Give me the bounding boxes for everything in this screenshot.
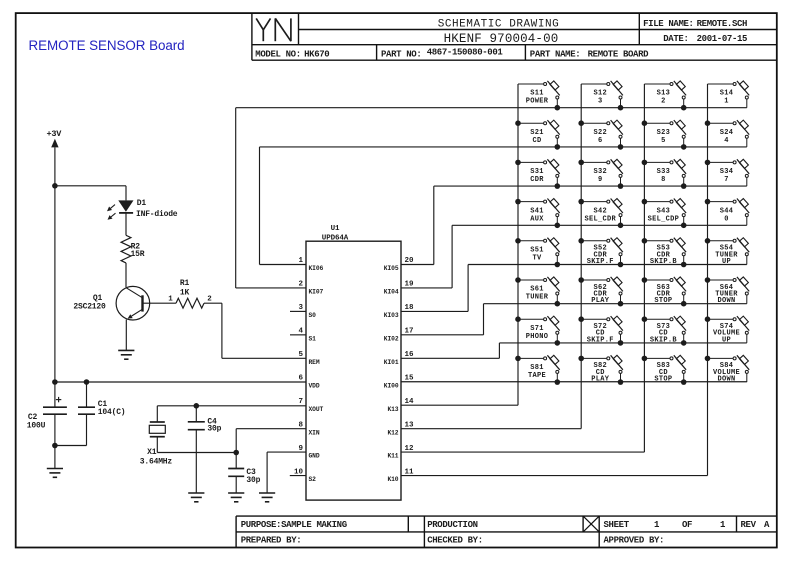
wire R1 to REM pin5 <box>204 303 306 358</box>
wire row4 bus KI04 <box>452 224 747 226</box>
switch S53 CDR SKIP.B <box>644 238 686 266</box>
svg-text:SCHEMATIC DRAWING: SCHEMATIC DRAWING <box>438 18 560 30</box>
svg-text:S24: S24 <box>720 129 734 137</box>
svg-text:S32: S32 <box>593 168 607 176</box>
svg-text:XOUT: XOUT <box>309 406 324 413</box>
node junctions row 7 <box>555 340 687 346</box>
x-box marker <box>583 516 599 532</box>
svg-text:K12: K12 <box>387 429 398 436</box>
pin 4 S1 label <box>298 328 316 343</box>
node junction C1 <box>84 379 90 385</box>
switch S24 4 <box>708 120 750 147</box>
svg-text:KI04: KI04 <box>384 289 399 296</box>
node junctions row 8 <box>555 379 687 385</box>
svg-text:PHONO: PHONO <box>526 333 549 341</box>
svg-text:PLAY: PLAY <box>591 376 610 384</box>
switch S31 CDR <box>518 159 560 186</box>
svg-text:KI01: KI01 <box>384 359 399 366</box>
svg-text:STOP: STOP <box>654 297 672 305</box>
pin 14 K13 label <box>387 398 414 413</box>
field PREPARED BY <box>241 536 302 546</box>
svg-text:15R: 15R <box>131 250 145 259</box>
svg-text:7: 7 <box>298 398 303 406</box>
switch S54 TUNER UP <box>708 238 750 266</box>
wire Q1 base to R1 <box>143 302 177 304</box>
svg-text:1: 1 <box>724 98 729 106</box>
crystal X1 3.64MHz <box>140 422 173 467</box>
svg-text:S81: S81 <box>530 364 544 372</box>
svg-text:4867-150080-001: 4867-150080-001 <box>427 48 504 58</box>
wire row1 bus KI07 <box>236 107 747 109</box>
field MODEL NO <box>255 50 329 60</box>
switch S82 CD PLAY <box>581 355 623 383</box>
svg-text:AUX: AUX <box>530 215 544 223</box>
wire K11 pin12 to column3 <box>401 451 644 453</box>
node junctions row 6 <box>555 301 687 307</box>
svg-text:APPROVED BY:: APPROVED BY: <box>604 536 665 546</box>
wire column 1 bus K13 <box>517 84 519 405</box>
pin 16 KI01 label <box>384 351 414 366</box>
wire row8 bus KI00 pin15 <box>401 381 747 383</box>
svg-text:PRODUCTION: PRODUCTION <box>427 520 478 530</box>
svg-text:X1: X1 <box>147 448 157 457</box>
wire row5 bus KI03 <box>468 264 747 266</box>
switch S64 TUNER DOWN <box>708 277 750 305</box>
svg-text:PART NO:: PART NO: <box>381 50 421 60</box>
pin 5 REM label <box>298 351 319 366</box>
svg-text:S51: S51 <box>530 247 544 255</box>
svg-text:8: 8 <box>298 421 303 429</box>
field DATE <box>663 34 747 44</box>
pin 6 VDD label <box>298 374 319 389</box>
svg-text:30p: 30p <box>246 476 260 485</box>
svg-text:2001-07-15: 2001-07-15 <box>697 34 748 44</box>
pin 1 label R1 <box>168 296 173 304</box>
svg-text:REM: REM <box>309 359 320 366</box>
svg-text:GND: GND <box>309 453 320 460</box>
label UPD64A <box>322 234 349 242</box>
pin 15 KI00 label <box>384 374 414 389</box>
switch S51 TV <box>518 238 560 265</box>
pin 12 K11 label <box>387 445 414 460</box>
wire row6 bus KI02 <box>484 303 747 305</box>
field FILE NAME <box>643 19 747 29</box>
switch S23 5 <box>644 120 686 147</box>
capacitor C3 30p <box>228 453 260 494</box>
switch S62 CDR PLAY <box>581 277 623 305</box>
svg-text:3: 3 <box>598 98 603 106</box>
svg-text:CDR: CDR <box>530 176 544 184</box>
svg-text:UP: UP <box>722 258 731 266</box>
svg-text:KI06: KI06 <box>309 265 324 272</box>
power +3V arrow <box>51 139 58 382</box>
node junctions row 2 <box>555 144 687 150</box>
wire KI03 pin18 to row5 <box>401 265 468 312</box>
field REV A <box>741 520 771 530</box>
ground under C4 <box>188 493 204 502</box>
svg-text:TAPE: TAPE <box>528 372 546 380</box>
svg-text:S43: S43 <box>657 207 671 215</box>
svg-text:S22: S22 <box>593 129 607 137</box>
svg-text:S31: S31 <box>530 168 544 176</box>
svg-text:MODEL NO:: MODEL NO: <box>255 50 300 60</box>
svg-text:S1: S1 <box>309 335 317 342</box>
svg-text:UP: UP <box>722 336 731 344</box>
svg-text:POWER: POWER <box>526 98 549 106</box>
svg-text:SKIP.B: SKIP.B <box>650 336 678 344</box>
svg-text:KI02: KI02 <box>384 335 399 342</box>
wire KI02 pin17 to row6 <box>401 304 484 335</box>
svg-text:KI05: KI05 <box>384 265 399 272</box>
node junction rail-LED <box>52 183 58 189</box>
switch S83 CD STOP <box>644 355 686 383</box>
capacitor C4 30p <box>188 406 222 493</box>
pin 2 KI07 label <box>298 281 323 296</box>
svg-text:5: 5 <box>661 137 666 145</box>
switch S84 VOLUME DOWN <box>708 355 750 383</box>
heading REMOTE SENSOR Board <box>29 38 185 53</box>
wire row7 bus KI01 <box>499 342 746 344</box>
field PURPOSE <box>241 520 347 530</box>
pin 9 GND label <box>298 445 319 460</box>
svg-text:HK670: HK670 <box>304 50 329 60</box>
node junctions column 4 <box>705 120 711 361</box>
switch S44 0 <box>708 199 750 226</box>
svg-text:9: 9 <box>298 445 303 453</box>
pin 4 S1 stub <box>290 334 306 336</box>
bottom block grid <box>236 516 777 547</box>
svg-text:UPD64A: UPD64A <box>322 234 349 242</box>
switch S13 2 <box>644 81 686 108</box>
pin 19 KI04 label <box>384 281 414 296</box>
svg-text:TV: TV <box>532 255 542 263</box>
svg-text:1: 1 <box>654 520 660 530</box>
svg-text:7: 7 <box>724 176 729 184</box>
svg-text:DOWN: DOWN <box>717 376 735 384</box>
svg-text:2SC2120: 2SC2120 <box>73 302 106 311</box>
svg-text:KI07: KI07 <box>309 289 324 296</box>
svg-text:HKENF 970004-00: HKENF 970004-00 <box>444 32 559 46</box>
svg-text:30p: 30p <box>207 425 221 434</box>
field CHECKED BY <box>427 536 483 546</box>
svg-text:KI03: KI03 <box>384 312 399 319</box>
node junctions column 3 <box>642 120 648 361</box>
pin 3 S0 label <box>298 304 316 319</box>
svg-text:SEL_CDP: SEL_CDP <box>648 215 680 223</box>
wire KI05 pin20 to row3 <box>401 186 434 264</box>
node junctions column 1 <box>515 120 521 361</box>
field PRODUCTION <box>427 520 478 530</box>
logo YN <box>256 18 291 41</box>
title block grid <box>252 13 777 60</box>
node junction C4 <box>194 403 200 409</box>
svg-text:3.64MHz: 3.64MHz <box>140 458 173 467</box>
svg-text:2: 2 <box>207 296 212 304</box>
switch S22 6 <box>581 120 623 147</box>
switch S73 CD SKIP.B <box>644 316 686 344</box>
svg-text:K10: K10 <box>387 476 398 483</box>
svg-text:S34: S34 <box>720 168 734 176</box>
node junction C3 <box>233 450 239 456</box>
switch S41 AUX <box>518 199 560 226</box>
svg-text:S61: S61 <box>530 286 544 294</box>
svg-text:SKIP.F: SKIP.F <box>587 258 614 266</box>
ground under pin9 <box>259 493 275 502</box>
wire VDD net <box>55 381 306 383</box>
svg-text:S71: S71 <box>530 325 544 333</box>
svg-text:1K: 1K <box>180 288 190 297</box>
svg-text:1: 1 <box>720 520 726 530</box>
pin 17 KI02 label <box>384 328 414 343</box>
svg-text:S41: S41 <box>530 207 544 215</box>
wire KI01 pin16 to row7 <box>401 343 499 358</box>
ground under Q1 <box>118 350 134 359</box>
svg-text:S0: S0 <box>309 312 317 319</box>
svg-text:S33: S33 <box>657 168 671 176</box>
switch S21 CD <box>518 120 560 147</box>
node junctions row 3 <box>555 183 687 189</box>
svg-text:9: 9 <box>598 176 603 184</box>
svg-text:REV: REV <box>741 520 757 530</box>
wire X1 to XIN node <box>157 437 236 453</box>
wire K13 pin14 to column1 <box>401 404 518 406</box>
node junction C2 <box>52 379 58 385</box>
svg-text:REMOTE BOARD: REMOTE BOARD <box>588 50 650 60</box>
title SCHEMATIC DRAWING <box>438 18 560 30</box>
pin 1 KI06 label <box>298 257 323 272</box>
switch S43 SEL_CDP <box>644 199 686 226</box>
pin 10 S2 label <box>294 468 316 483</box>
pin 18 KI03 label <box>384 304 414 319</box>
node junction C2-C1 <box>52 443 58 449</box>
pin 7 XOUT label <box>298 398 323 413</box>
svg-text:CD: CD <box>532 137 541 145</box>
capacitor C2 100U <box>27 382 67 446</box>
resistor R2 15R <box>121 235 145 263</box>
svg-text:TUNER: TUNER <box>526 294 549 302</box>
title HKENF 970004-00 <box>444 32 559 46</box>
wire XOUT net <box>157 406 306 422</box>
svg-text:0: 0 <box>724 215 729 223</box>
capacitor C1 104(C) <box>55 382 126 446</box>
svg-text:SKIP.F: SKIP.F <box>587 336 614 344</box>
pin 20 KI05 label <box>384 257 414 272</box>
wire column 2 bus K12 <box>580 84 582 429</box>
svg-text:STOP: STOP <box>654 376 672 384</box>
svg-text:SEL_CDR: SEL_CDR <box>584 215 616 223</box>
svg-text:S12: S12 <box>593 90 607 98</box>
svg-text:S11: S11 <box>530 90 544 98</box>
wire rail to D1 <box>55 186 126 201</box>
switch S81 TAPE <box>518 355 560 382</box>
svg-text:SKIP.B: SKIP.B <box>650 258 678 266</box>
pin 11 K10 label <box>387 468 414 483</box>
switch S32 9 <box>581 159 623 186</box>
svg-text:XIN: XIN <box>309 429 320 436</box>
svg-text:5: 5 <box>298 351 303 359</box>
svg-text:REMOTE SENSOR Board: REMOTE SENSOR Board <box>29 38 185 53</box>
wire R2 to Q1 collector <box>125 263 127 287</box>
transistor Q1 2SC2120 <box>73 286 149 350</box>
wire GND pin9 <box>267 452 306 493</box>
switch S71 PHONO <box>518 316 560 343</box>
switch S33 8 <box>644 159 686 186</box>
switch S34 7 <box>708 159 750 186</box>
field APPROVED BY <box>604 536 665 546</box>
wire row2 bus KI06 <box>260 146 747 148</box>
svg-text:4: 4 <box>724 137 729 145</box>
svg-text:OF: OF <box>682 520 692 530</box>
wire KI06 pin1 to row2 <box>260 147 307 265</box>
svg-text:8: 8 <box>661 176 666 184</box>
switch S52 CDR SKIP.F <box>581 238 623 266</box>
svg-text:6: 6 <box>298 374 303 382</box>
svg-text:6: 6 <box>598 137 603 145</box>
node junctions row 5 <box>555 262 687 268</box>
pin 2 label R1 <box>207 296 212 304</box>
wire XIN net <box>236 429 306 453</box>
svg-text:R1: R1 <box>180 279 190 288</box>
svg-text:PART NAME:: PART NAME: <box>530 50 581 60</box>
svg-text:S21: S21 <box>530 129 544 137</box>
svg-text:S14: S14 <box>720 90 734 98</box>
svg-text:DOWN: DOWN <box>717 297 735 305</box>
ground under C2 <box>47 469 63 478</box>
switch S42 SEL_CDR <box>581 199 623 226</box>
switch S14 1 <box>708 81 750 108</box>
svg-text:PURPOSE:SAMPLE MAKING: PURPOSE:SAMPLE MAKING <box>241 520 347 530</box>
svg-text:VDD: VDD <box>309 382 320 389</box>
pin 10 S2 stub <box>290 475 306 477</box>
resistor R1 1K <box>176 279 204 308</box>
switch S12 3 <box>581 81 623 108</box>
svg-text:FILE NAME:: FILE NAME: <box>643 19 694 29</box>
svg-text:100U: 100U <box>27 422 46 431</box>
op-amp U1 UPD64A box <box>306 241 401 500</box>
pin 3 S0 stub <box>290 310 306 312</box>
wire C2 to ground <box>54 446 56 469</box>
svg-text:K13: K13 <box>387 406 398 413</box>
svg-text:INF-diode: INF-diode <box>136 210 178 219</box>
switch S74 VOLUME UP <box>708 316 750 344</box>
node junctions column 2 <box>578 120 584 361</box>
svg-text:S44: S44 <box>720 207 734 215</box>
wire KI07 pin2 to row1 <box>236 108 306 288</box>
svg-text:2: 2 <box>661 98 666 106</box>
ground under C3 <box>228 493 244 502</box>
field PART NO <box>381 48 503 60</box>
svg-text:U1: U1 <box>331 225 340 233</box>
wire column 3 bus K11 <box>643 84 645 452</box>
power +3V label <box>47 129 63 139</box>
svg-text:S13: S13 <box>657 90 671 98</box>
wire D1 to R2 <box>125 213 127 235</box>
wire column 4 bus K10 <box>707 84 709 476</box>
svg-text:C2: C2 <box>28 413 38 422</box>
svg-text:SHEET: SHEET <box>604 520 630 530</box>
switch S72 CD SKIP.F <box>581 316 623 344</box>
pin 13 K12 label <box>387 421 414 436</box>
svg-text:A: A <box>764 520 770 530</box>
wire K12 pin13 to column2 <box>401 428 581 430</box>
node junctions row 1 <box>555 105 687 111</box>
svg-text:D1: D1 <box>137 199 147 208</box>
svg-text:KI00: KI00 <box>384 382 399 389</box>
svg-text:REMOTE.SCH: REMOTE.SCH <box>697 19 748 29</box>
switch S11 POWER <box>518 81 560 108</box>
label U1 <box>331 225 340 233</box>
node junctions row 4 <box>555 223 687 229</box>
svg-text:DATE:: DATE: <box>663 34 688 44</box>
field SHEET 1 OF 1 <box>604 520 727 530</box>
wire K10 pin11 to column4 <box>401 475 708 477</box>
svg-text:S2: S2 <box>309 476 317 483</box>
wire KI04 pin19 to row4 <box>401 225 452 288</box>
wire row3 bus KI05 <box>434 185 747 187</box>
svg-text:CHECKED BY:: CHECKED BY: <box>427 536 483 546</box>
svg-text:1: 1 <box>168 296 173 304</box>
field PART NAME <box>530 50 649 60</box>
svg-text:PREPARED BY:: PREPARED BY: <box>241 536 302 546</box>
switch S63 CDR STOP <box>644 277 686 305</box>
switch S61 TUNER <box>518 277 560 304</box>
pin 8 XIN label <box>298 421 319 436</box>
svg-text:104(C): 104(C) <box>98 408 126 417</box>
diode D1 INF-diode <box>107 199 178 220</box>
svg-text:+3V: +3V <box>47 129 63 139</box>
svg-text:S42: S42 <box>593 207 607 215</box>
svg-text:PLAY: PLAY <box>591 297 610 305</box>
svg-text:K11: K11 <box>387 453 398 460</box>
svg-text:S23: S23 <box>657 129 671 137</box>
